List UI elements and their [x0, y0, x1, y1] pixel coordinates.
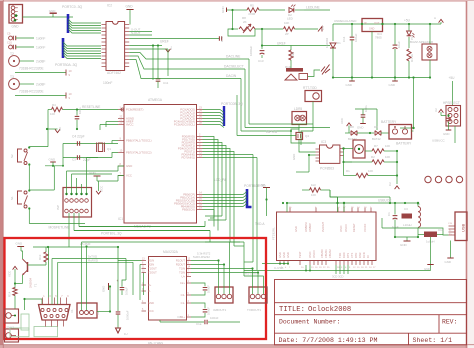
- svg-text:C3: C3: [404, 207, 408, 211]
- svg-text:Q1: Q1: [107, 147, 111, 151]
- svg-text:+5U: +5U: [404, 19, 411, 23]
- svg-text:C3: C3: [72, 158, 76, 162]
- svg-text:1bPS-A: 1bPS-A: [266, 130, 278, 134]
- svg-text:L10uH: L10uH: [403, 223, 412, 227]
- bus PORTB L-shape: [247, 189, 252, 207]
- svg-text:C9: C9: [7, 32, 11, 36]
- svg-text:C2+: C2+: [180, 281, 185, 285]
- svg-text:R2OUT: R2OUT: [176, 263, 185, 267]
- svg-text:GND: GND: [286, 252, 290, 258]
- svg-text:DCD: DCD: [362, 252, 366, 258]
- wire jack line 1: [15, 72, 66, 74]
- svg-text:AVCC: AVCC: [126, 123, 134, 127]
- svg-text:C1-: C1-: [181, 301, 185, 305]
- gnd rotated cluster: [108, 283, 110, 290]
- svg-text:GND: GND: [294, 226, 298, 232]
- svg-text:PORTB0L..3Q: PORTB0L..3Q: [101, 232, 122, 236]
- resistor R5 470R: [231, 9, 233, 11]
- svg-text:GND: GND: [369, 28, 375, 31]
- svg-text:1U: 1U: [124, 332, 128, 336]
- svg-text:IC2: IC2: [107, 4, 112, 8]
- verticals from IC2 outputs: [152, 46, 154, 81]
- svg-text:7805: 7805: [375, 36, 382, 40]
- svg-text:REV:: REV:: [442, 319, 457, 326]
- svg-text:RXD: RXD: [342, 252, 346, 258]
- FT232 bottom pin wires: [279, 263, 281, 265]
- svg-text:GND: GND: [389, 83, 395, 87]
- gnd mid: [94, 175, 101, 177]
- svg-text:USBDP: USBDP: [308, 223, 312, 232]
- resistor R4 1K: [407, 49, 411, 61]
- svg-text:LCD_PA: LCD_PA: [214, 178, 227, 182]
- vcc arrow battery: [347, 123, 352, 126]
- switch S4: [321, 65, 330, 75]
- arrow gnd down: [116, 328, 121, 333]
- vcc chevron R pullups: [396, 151, 398, 184]
- wire +5 to battery area: [413, 78, 415, 129]
- svg-text:DACSELECT: DACSELECT: [224, 65, 244, 69]
- wire JP1 to gnd: [23, 16, 74, 18]
- svg-text:T1: T1: [34, 283, 38, 287]
- svg-text:100nF: 100nF: [210, 316, 219, 320]
- svg-text:DACIN: DACIN: [226, 74, 237, 78]
- svg-text:VCC: VCC: [126, 174, 132, 178]
- svg-text:LEDLINE: LEDLINE: [306, 6, 321, 10]
- MAX232 feeder verticals: [139, 265, 141, 301]
- wires ISP top: [66, 171, 68, 194]
- svg-text:BATTERY: BATTERY: [381, 120, 397, 124]
- svg-text:PORTC0..3Q: PORTC0..3Q: [62, 5, 82, 9]
- capacitor C7: [361, 115, 366, 117]
- svg-text:C-USB: C-USB: [274, 266, 283, 270]
- cap right pump2: [191, 303, 205, 308]
- svg-text:C1: C1: [387, 212, 391, 216]
- svg-text:10K: 10K: [284, 21, 289, 25]
- svg-text:Sheet: 1/1: Sheet: 1/1: [413, 337, 453, 344]
- wire +5 to HPSELECT: [452, 81, 454, 106]
- svg-text:PB5(SCK): PB5(SCK): [182, 208, 195, 212]
- jumper J3 serial: [77, 303, 97, 318]
- svg-text:C14: C14: [342, 36, 346, 42]
- capacitor C17 1000uF: [117, 247, 119, 311]
- arrow down AVCC: [96, 191, 101, 194]
- jumper RXDOUT1: [215, 287, 233, 303]
- svg-text:GND: GND: [346, 83, 352, 87]
- svg-text:PORTB0A..3Q: PORTB0A..3Q: [55, 63, 78, 67]
- resistor R1 10K: [356, 173, 368, 177]
- svg-text:X1: X1: [70, 309, 74, 313]
- svg-text:1BL O WES: 1BL O WES: [148, 341, 163, 345]
- capacitor C15 hp: [448, 116, 450, 118]
- svg-text:MAX232A: MAX232A: [163, 250, 179, 254]
- capacitor C1 10uF: [394, 203, 396, 215]
- svg-text:U2: U2: [434, 108, 438, 112]
- svg-text:MOSFETLINE: MOSFETLINE: [49, 226, 71, 230]
- svg-text:IC3: IC3: [321, 140, 326, 144]
- svg-text:1u0nF: 1u0nF: [36, 37, 45, 41]
- svg-text:GND: GND: [278, 252, 282, 258]
- gnd usb conn2: [450, 241, 452, 259]
- mounting holes: [425, 176, 431, 182]
- svg-text:C10: C10: [7, 41, 12, 45]
- resistor R10 220: [289, 50, 293, 60]
- svg-text:T2: T2: [10, 52, 14, 56]
- gnd hp: [446, 129, 452, 131]
- IC1 left pins: [118, 109, 124, 111]
- svg-text:D8: D8: [350, 125, 354, 129]
- svg-text:CTS: CTS: [350, 253, 354, 258]
- capacitor C11 100nF: [156, 79, 161, 81]
- bus fan to IC2 lower: [63, 42, 101, 46]
- svg-text:UCC: UCC: [148, 309, 154, 313]
- gnd usb ferrite: [430, 237, 432, 271]
- testpoint chevron: [318, 27, 322, 32]
- svg-text:GND: GND: [221, 6, 225, 14]
- svg-text:J3: J3: [96, 312, 100, 315]
- svg-text:GND: GND: [292, 154, 296, 160]
- svg-text:C5: C5: [321, 26, 325, 30]
- svg-text:R1IN: R1IN: [148, 259, 154, 263]
- svg-text:TXD: TXD: [338, 253, 342, 258]
- svg-text:USBDM: USBDM: [304, 223, 308, 232]
- svg-text:100uF: 100uF: [125, 287, 129, 295]
- svg-text:2u08F: 2u08F: [36, 83, 45, 87]
- svg-text:RI: RI: [366, 255, 370, 258]
- svg-text:V-: V-: [148, 289, 151, 293]
- svg-text:T1IN: T1IN: [179, 267, 185, 271]
- svg-text:DSR: DSR: [358, 252, 362, 258]
- resistor R9: [284, 27, 295, 31]
- jack T3: [9, 79, 20, 90]
- IC2 output wires: [129, 31, 152, 33]
- svg-text:IC1: IC1: [118, 217, 123, 221]
- bus fan to IC2 upper: [68, 19, 101, 23]
- regulator IC4 7805: [362, 19, 383, 32]
- svg-text:C11: C11: [163, 81, 169, 85]
- vcc arrow top right: [439, 19, 444, 22]
- vertical RX to caps: [132, 262, 134, 295]
- svg-text:100nF: 100nF: [103, 81, 112, 85]
- wire RX line: [58, 261, 133, 263]
- vcc arrow mid: [166, 49, 171, 52]
- PD bundle verticals: [203, 137, 215, 227]
- svg-text:LED: LED: [287, 17, 294, 21]
- svg-text:GND: GND: [126, 164, 132, 168]
- wires S2: [47, 129, 49, 147]
- title block: [275, 280, 467, 345]
- svg-text:OSCO: OSCO: [312, 250, 316, 258]
- svg-text:DTR: DTR: [354, 253, 358, 258]
- bus PORTC vertical: [67, 14, 70, 33]
- bus fan to right pins: [203, 192, 248, 195]
- jack X2 line: [5, 309, 19, 323]
- svg-text:ISP: ISP: [56, 205, 60, 210]
- capacitor C13 1000uF: [260, 50, 265, 52]
- svg-text:R1OUT: R1OUT: [176, 259, 185, 263]
- svg-text:TXROUT1: TXROUT1: [247, 308, 261, 312]
- svg-text:CBUS1: CBUS1: [324, 249, 328, 258]
- bus PORTB vertical: [62, 38, 65, 58]
- svg-text:RESET: RESET: [352, 223, 356, 232]
- LED D5 power: [408, 23, 410, 25]
- svg-text:CBUS2: CBUS2: [328, 249, 332, 258]
- svg-text:R5: R5: [250, 4, 254, 8]
- diode D1 1N4004: [332, 24, 334, 41]
- wires RTC cluster: [312, 102, 314, 132]
- svg-text:GND: GND: [49, 158, 57, 162]
- switch S2: [18, 149, 23, 162]
- svg-text:GND: GND: [102, 286, 106, 292]
- svg-text:220: 220: [291, 52, 295, 57]
- svg-text:OSCI: OSCI: [308, 251, 312, 258]
- svg-text:R4 1K: R4 1K: [410, 54, 414, 62]
- svg-text:3xBOUT1: 3xBOUT1: [213, 308, 227, 312]
- svg-text:S1: S1: [10, 196, 14, 200]
- wires USBDM USBDP: [305, 265, 307, 271]
- svg-text:Oclock2008: Oclock2008: [308, 306, 351, 314]
- svg-text:3CD 3CD: 3CD 3CD: [332, 275, 344, 279]
- wires ISP bottom: [68, 213, 70, 247]
- svg-text:PORTC0B..3Q: PORTC0B..3Q: [221, 102, 243, 106]
- svg-text:S2: S2: [10, 154, 14, 158]
- svg-text:73188-RC2320E: 73188-RC2320E: [19, 67, 44, 71]
- svg-text:CBUS0: CBUS0: [320, 249, 324, 258]
- svg-text:GND: GND: [16, 242, 24, 246]
- wire 4th vertical: [236, 95, 238, 136]
- capacitor C15 100uF: [125, 259, 127, 281]
- svg-text:C1a: C1a: [196, 322, 202, 326]
- transistor T1 2N2904: [27, 262, 29, 272]
- svg-text:S-OUT: S-OUT: [131, 31, 141, 35]
- wire USBVCC right: [454, 126, 456, 143]
- svg-text:OSCO: OSCO: [344, 224, 348, 232]
- svg-text:PC5(ADC5/SCL): PC5(ADC5/SCL): [174, 123, 195, 127]
- wire jack line 2: [15, 95, 66, 97]
- svg-text:5xRX-RS232: 5xRX-RS232: [193, 255, 210, 259]
- connector JP1: [9, 5, 23, 24]
- wire long mid2: [82, 241, 211, 243]
- power rail top: [333, 23, 441, 25]
- svg-text:10K: 10K: [311, 193, 316, 197]
- svg-text:10K: 10K: [385, 155, 390, 159]
- svg-text:IN: IN: [364, 21, 367, 25]
- svg-text:GND: GND: [12, 25, 20, 29]
- jumper TXDOUT1: [249, 287, 267, 303]
- cap C1a bottom: [160, 321, 204, 323]
- svg-text:FT232RL: FT232RL: [272, 227, 276, 240]
- svg-text:10uF: 10uF: [397, 41, 401, 48]
- svg-text:Date: 7/7/2008 1:49:13 PM: Date: 7/7/2008 1:49:13 PM: [279, 337, 378, 344]
- gnd usb filter: [395, 236, 418, 238]
- svg-text:C: C: [433, 17, 437, 19]
- svg-text:1000uF: 1000uF: [249, 46, 253, 56]
- svg-text:R4: R4: [52, 103, 56, 107]
- svg-text:GND: GND: [357, 126, 363, 130]
- LED D2: [289, 8, 294, 13]
- svg-text:PD7(AIN1): PD7(AIN1): [181, 156, 195, 160]
- ferrite bead L2: [402, 214, 413, 219]
- op-amp IC2: [106, 22, 125, 71]
- wire MOSFETLINE: [29, 223, 85, 225]
- wire TX line: [52, 258, 126, 260]
- svg-text:D6: D6: [374, 125, 378, 129]
- svg-text:10K: 10K: [385, 144, 390, 148]
- svg-text:RxRXD: RxRXD: [88, 259, 99, 263]
- svg-text:R14: R14: [8, 291, 12, 297]
- svg-text:UREF: UREF: [160, 40, 169, 44]
- svg-text:UNREGULATED: UNREGULATED: [334, 19, 357, 23]
- svg-text:USB: USB: [461, 223, 466, 232]
- svg-text:GND: GND: [443, 132, 449, 136]
- svg-text:PCF8563: PCF8563: [320, 167, 334, 171]
- svg-text:OSCI: OSCI: [339, 225, 343, 232]
- svg-text:GND: GND: [400, 243, 408, 247]
- svg-text:C12: C12: [220, 36, 224, 42]
- svg-text:GND: GND: [259, 183, 267, 187]
- svg-text:PB7(XTAL2/TOSC2): PB7(XTAL2/TOSC2): [126, 151, 152, 155]
- svg-text:D1: D1: [337, 41, 341, 45]
- svg-text:100uF: 100uF: [354, 33, 358, 42]
- node UREF branch: [261, 28, 263, 30]
- svg-text:D-: D-: [449, 230, 452, 232]
- svg-text:T2OUT: T2OUT: [148, 271, 157, 275]
- svg-text:GND: GND: [445, 260, 451, 264]
- svg-text:U+: U+: [181, 275, 185, 279]
- DB9 bottom stubs: [45, 320, 47, 327]
- svg-text:HPSELECT: HPSELECT: [443, 101, 460, 105]
- crystal circuit wires: [63, 143, 118, 145]
- page frame: [0, 0, 474, 2]
- diode D6 BAT42: [375, 131, 381, 136]
- svg-text:3V3OUT: 3V3OUT: [321, 221, 325, 232]
- USB connector X3: [455, 212, 467, 241]
- gnd below rail 2: [394, 78, 396, 82]
- wire RESETLINE: [52, 107, 63, 111]
- light-green frames bottom: [21, 314, 29, 330]
- svg-text:U+: U+: [169, 46, 173, 50]
- svg-text:1000uF: 1000uF: [126, 310, 130, 320]
- node jack1: [23, 298, 25, 300]
- svg-text:TEST: TEST: [298, 251, 302, 258]
- DB9 top stubs: [42, 298, 44, 305]
- wire RS232 top: [33, 246, 118, 248]
- svg-text:GND: GND: [49, 9, 57, 13]
- svg-text:GND: GND: [126, 5, 134, 9]
- svg-text:VCC: VCC: [8, 271, 12, 277]
- svg-text:2N2904: 2N2904: [29, 277, 33, 288]
- svg-text:1N4004: 1N4004: [325, 37, 329, 48]
- svg-text:USBUCC: USBUCC: [378, 199, 392, 203]
- crystal Q1: [98, 143, 102, 152]
- svg-text:2K: 2K: [243, 20, 247, 24]
- wires LCD horizontals: [249, 123, 313, 125]
- svg-text:T3: T3: [10, 75, 14, 79]
- gnd stem 7805: [371, 32, 373, 78]
- svg-text:UREF: UREF: [277, 42, 286, 46]
- crystal X2 box: [353, 140, 365, 158]
- svg-text:470R: 470R: [248, 12, 256, 16]
- svg-text:UCC: UCC: [100, 186, 104, 192]
- svg-text:Q4: Q4: [305, 134, 309, 138]
- svg-text:C2: C2: [388, 182, 392, 186]
- power rail bottom: [333, 77, 430, 79]
- svg-text:R7: R7: [374, 144, 378, 148]
- svg-text:RTT-TOD: RTT-TOD: [303, 86, 317, 90]
- jack X4 mic: [5, 329, 19, 342]
- svg-text:C16: C16: [438, 228, 444, 232]
- svg-text:GND: GND: [424, 267, 430, 271]
- cap right 100uF pump1: [191, 283, 205, 286]
- svg-text:ADF7462: ADF7462: [107, 71, 121, 75]
- ferrite bead L3: [424, 232, 437, 238]
- buzzer SP1: [286, 68, 303, 72]
- svg-text:C1+: C1+: [180, 315, 185, 319]
- svg-text:100n: 100n: [364, 105, 368, 112]
- wire with junctions: [129, 45, 162, 47]
- svg-text:2u08F: 2u08F: [36, 60, 45, 64]
- svg-text:PB6(XTAL1/TOSC1): PB6(XTAL1/TOSC1): [126, 139, 152, 143]
- wire UREF to cap: [129, 38, 219, 40]
- svg-text:UC: UC: [58, 127, 62, 131]
- gnd above IC2: [126, 9, 133, 11]
- svg-text:1k3: 1k3: [311, 183, 316, 187]
- svg-text:USBUCC: USBUCC: [432, 139, 446, 143]
- capacitor C12 series: [219, 36, 221, 41]
- resistor R7 10K: [372, 149, 384, 153]
- svg-text:DACLINE: DACLINE: [226, 55, 241, 59]
- svg-text:1u0nF: 1u0nF: [36, 46, 45, 50]
- svg-text:TXD-A: TXD-A: [255, 222, 265, 226]
- svg-text:GND: GND: [282, 252, 286, 258]
- wires into J3: [81, 242, 83, 310]
- wires FT232 top to USB rail: [337, 197, 339, 212]
- capacitor C9: [9, 36, 13, 40]
- svg-text:C4 22pF: C4 22pF: [72, 135, 85, 139]
- wire UREF right: [261, 44, 263, 46]
- wires AREF AVCC: [106, 121, 118, 123]
- vcc chevron hp: [439, 109, 444, 112]
- wires S1: [29, 189, 54, 191]
- svg-text:73188-RC2320E: 73188-RC2320E: [19, 90, 44, 94]
- svg-text:PC6(/RESET): PC6(/RESET): [126, 108, 143, 112]
- svg-text:ATMEGA: ATMEGA: [148, 98, 163, 102]
- reset pullup arrow: [47, 110, 49, 130]
- svg-text:T2IN: T2IN: [179, 271, 185, 275]
- switch S1: [18, 191, 23, 204]
- gnd below rail 1: [351, 78, 353, 82]
- svg-text:Document Number:: Document Number:: [279, 319, 340, 326]
- svg-text:R1: R1: [346, 169, 350, 173]
- capacitor C2 10uF: [394, 23, 396, 25]
- MAX232 right wires: [191, 260, 219, 262]
- ISP header JP2: [63, 188, 92, 218]
- svg-text:T1OUT: T1OUT: [148, 267, 157, 271]
- svg-text:BATTERY: BATTERY: [396, 142, 412, 146]
- IC1 right pins upper PC: [197, 109, 203, 111]
- gnd mid right: [263, 187, 270, 189]
- IC6 FT232RL: [277, 212, 377, 261]
- svg-text:10K: 10K: [368, 169, 373, 173]
- crystal Q4: [296, 133, 303, 140]
- svg-text:GND: GND: [89, 171, 97, 175]
- resistor R14 1k: [13, 288, 17, 296]
- DB9 connector X1: [39, 305, 71, 321]
- svg-text:UCC: UCC: [340, 118, 344, 124]
- svg-text:100uF: 100uF: [207, 307, 211, 315]
- svg-text:10K: 10K: [50, 112, 55, 116]
- svg-text:100uF: 100uF: [207, 285, 211, 293]
- resistor R3 10K top FT232: [310, 188, 321, 192]
